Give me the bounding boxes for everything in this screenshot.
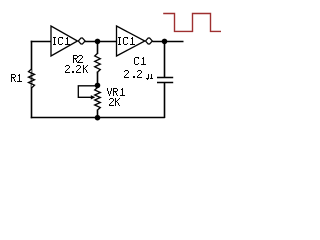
- resistor R2: [95, 53, 101, 73]
- label IC1 second: [118, 37, 135, 45]
- resistor VR1 zigzag: [95, 88, 101, 111]
- inverter bubble second (diamond): [146, 38, 153, 44]
- label R1: [11, 74, 22, 82]
- wire bottom rail: [31, 117, 165, 119]
- wire R2 to VR1: [97, 72, 99, 89]
- node junction dot C bottom rail: [95, 115, 101, 121]
- label mu symbol: [146, 74, 153, 80]
- wire capacitor branch upper: [164, 41, 166, 78]
- label 2.2K: [65, 65, 88, 73]
- label C1: [134, 57, 146, 65]
- wire output of second inverter: [153, 41, 184, 43]
- wire from first bubble to second inverter input: [85, 41, 117, 43]
- wire left rail: [31, 41, 33, 119]
- VR1 wiper arrowhead: [91, 95, 96, 99]
- wire R2 branch upper: [97, 41, 99, 54]
- node junction dot D output: [162, 39, 168, 45]
- node junction dot A: [95, 39, 101, 45]
- capacitor C1 bottom plate: [157, 82, 173, 84]
- inverter bubble first (diamond): [78, 38, 85, 44]
- waveform square wave output: [163, 14, 221, 32]
- inverter IC1 first triangle: [51, 26, 78, 56]
- label 2.2 value: [124, 70, 142, 78]
- wire capacitor branch lower: [164, 83, 166, 119]
- resistor R1: [29, 69, 35, 88]
- inverter IC1 second triangle: [117, 26, 145, 56]
- wire top-left from left rail to IC1 input: [31, 41, 51, 43]
- wire VR1 wiper loop: [78, 86, 97, 98]
- label VR1: [107, 88, 125, 96]
- label 2K: [109, 98, 120, 106]
- node junction dot B: [95, 83, 101, 89]
- capacitor C1 top plate: [157, 77, 173, 79]
- label R2: [73, 55, 83, 63]
- wire VR1 bottom to rail: [97, 110, 99, 119]
- label IC1 first: [53, 37, 70, 45]
